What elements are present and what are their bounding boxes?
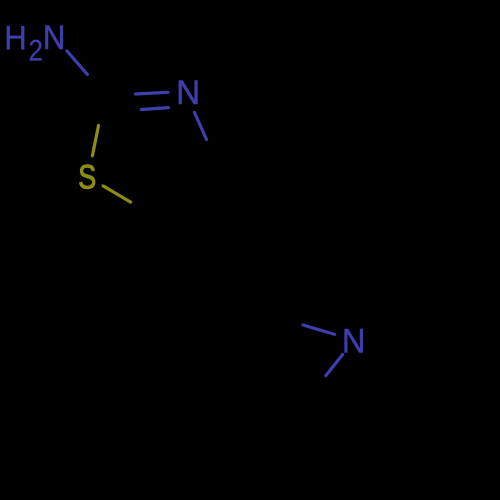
svg-text:N: N — [43, 18, 66, 57]
svg-text:N: N — [342, 323, 366, 361]
svg-text:2: 2 — [28, 34, 42, 67]
svg-text:H: H — [4, 18, 27, 57]
svg-text:S: S — [78, 158, 96, 196]
svg-text:N: N — [176, 75, 200, 112]
